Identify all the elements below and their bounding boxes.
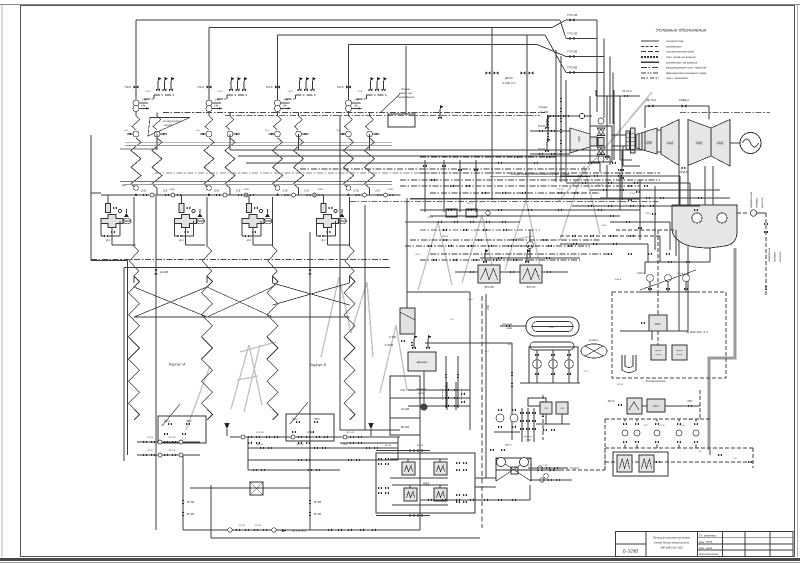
svg-text:СМ: СМ <box>544 408 548 410</box>
group riser below valve <box>277 92 279 99</box>
svg-text:ВГ-5В: ВГ-5В <box>187 501 194 504</box>
svg-text:ПЗ-6: ПЗ-6 <box>146 91 152 93</box>
heater zigzag pair group 1 <box>135 112 137 117</box>
heater pumps box <box>529 347 578 383</box>
БОУ dashed enclosure <box>612 292 726 378</box>
drain pumps pair <box>496 414 504 422</box>
drop to lower risers <box>111 228 113 246</box>
small flags above tank <box>413 339 415 348</box>
shell outline lines across heater groups <box>125 142 392 144</box>
svg-text:ФП-1В: ФП-1В <box>538 125 546 128</box>
link from feed pumps to drain row <box>560 469 605 471</box>
drain collector column <box>390 376 420 435</box>
svg-text:ВР1-2В: ВР1-2В <box>346 432 354 434</box>
LP cylinder 2 <box>711 120 730 167</box>
svg-text:(2+В: (2+В <box>353 191 359 193</box>
small cluster left of turbine <box>620 169 624 172</box>
svg-text:ЦВД: ЦВД <box>646 141 653 145</box>
middle-right horizontals below turbine <box>560 175 680 177</box>
svg-text:РЧ4В: РЧ4В <box>243 188 249 191</box>
legend row: пит. вода на впрыск <box>641 56 659 58</box>
svg-text:(2+В: (2+В <box>214 191 220 193</box>
svg-text:ЦНД: ЦНД <box>717 141 725 145</box>
svg-text:на конденс.: на конденс. <box>292 529 307 533</box>
svg-text:РЧ4В: РЧ4В <box>169 188 175 191</box>
steam line 1 diagonal to stop valve <box>560 20 566 39</box>
svg-text:Нормальный: Нормальный <box>749 191 753 208</box>
steam line 1 horizontal <box>136 19 560 21</box>
svg-text:охладит.: охладит. <box>589 339 600 342</box>
turbine drain collectors <box>620 330 688 332</box>
crossover pipes down <box>678 166 680 332</box>
svg-text:конд-та: конд-та <box>778 251 782 262</box>
drain collector band <box>163 112 545 114</box>
svg-text:конденсат: конденсат <box>666 44 682 48</box>
boiler waterwall zigzag 1 <box>129 276 140 420</box>
distribution maze horizontals <box>420 209 640 211</box>
legend row: острый пар <box>641 40 659 42</box>
svg-text:КЭН-Б: КЭН-Б <box>615 279 622 281</box>
LP exhaust to condenser <box>704 166 706 205</box>
trio header line <box>296 94 317 96</box>
svg-text:ВГ-6В: ВГ-6В <box>187 513 194 516</box>
left boundary pipes <box>90 135 92 261</box>
svg-text:насос: насос <box>677 354 684 356</box>
generator <box>740 133 761 154</box>
valve И1-6 <box>207 85 212 88</box>
РОУ station boxes <box>446 209 457 217</box>
svg-text:конд-та: конд-та <box>760 197 764 208</box>
bottom manifold lines <box>230 436 400 438</box>
drop to lower risers <box>185 228 187 246</box>
group 4 header line with fittings <box>314 194 401 196</box>
svg-text:ВТЗ-В: ВТЗ-В <box>257 444 264 446</box>
svg-text:добавок: добавок <box>755 197 759 208</box>
svg-text:схема блока мощностью: схема блока мощностью <box>654 541 690 545</box>
svg-text:РКНД-Б: РКНД-Б <box>679 171 688 174</box>
small instrument above unit 1 <box>113 207 117 210</box>
heater group 3 main downcomer <box>277 35 279 115</box>
steam line 2 diagonal to stop valve <box>552 20 566 28</box>
hotwell line <box>709 248 711 262</box>
svg-text:дренаж расточенного пара: дренаж расточенного пара <box>666 71 706 75</box>
svg-text:КВ-10: КВ-10 <box>608 401 615 403</box>
svg-text:ПВ-2: ПВ-2 <box>186 420 192 423</box>
expander tank <box>400 308 415 334</box>
svg-text:ГПЗ-2В: ГПЗ-2В <box>567 32 577 36</box>
lower drum <box>530 342 574 350</box>
wave tank <box>627 398 642 414</box>
svg-text:СМ-2: СМ-2 <box>653 404 660 408</box>
svg-text:СП-1В: СП-1В <box>557 189 564 191</box>
svg-text:ВД-2В: ВД-2В <box>442 236 449 238</box>
condensate pumps КЭН <box>647 275 654 282</box>
svg-text:14в: 14в <box>142 98 147 102</box>
svg-text:Гл. инженер: Гл. инженер <box>699 534 716 538</box>
svg-text:ГПЗ-3В: ГПЗ-3В <box>567 50 577 54</box>
svg-text:ПМУ: ПМУ <box>687 401 693 403</box>
svg-text:ЭТ1-2В: ЭТ1-2В <box>168 437 176 439</box>
svg-text:Общестанционная магистраль 5 а: Общестанционная магистраль 5 атм <box>511 172 570 176</box>
steam line 4 horizontal <box>349 44 538 46</box>
svg-text:Д-1: Д-1 <box>246 238 252 242</box>
condenser <box>672 205 737 248</box>
svg-text:П-302-2: П-302-2 <box>570 467 580 470</box>
svg-text:ПЗ-6: ПЗ-6 <box>218 91 224 93</box>
svg-text:Р-2В: Р-2В <box>528 465 533 467</box>
small instrument above unit 4 <box>329 207 333 210</box>
safety valve trio <box>299 81 301 90</box>
svg-text:ВТО-5В: ВТО-5В <box>485 286 494 289</box>
boiler waterwall zigzag 4 <box>344 276 355 420</box>
long dashed main <box>481 296 483 528</box>
sheet top edge <box>0 4 800 6</box>
svg-text:14в: 14в <box>141 104 146 108</box>
safety valve trio <box>370 81 372 90</box>
svg-text:ПВ-1: ПВ-1 <box>292 418 298 421</box>
valve Д-3АВ on center line <box>155 196 157 530</box>
title block <box>616 532 794 557</box>
svg-text:Условные обозначения: Условные обозначения <box>656 28 707 33</box>
svg-text:ЦНД: ЦНД <box>696 141 704 145</box>
svg-text:рециркуляция пит. насосов: рециркуляция пит. насосов <box>665 66 707 70</box>
trio header line <box>367 94 388 96</box>
svg-text:ЭТ1-В: ЭТ1-В <box>147 437 154 439</box>
stop valve ГПЗ-3В <box>569 55 574 59</box>
ДРОУ reduction drops <box>491 28 493 201</box>
drain pump <box>420 403 427 410</box>
safety valve trio <box>157 81 159 90</box>
svg-text:ПЭ-6: ПЭ-6 <box>337 85 344 89</box>
svg-text:ЛК-70-А: ЛК-70-А <box>645 98 657 102</box>
svg-text:ВР1-1В: ВР1-1В <box>296 444 304 446</box>
steam line 4 diagonal to stop valve <box>537 45 566 57</box>
feed pipes cap <box>596 95 614 97</box>
svg-text:ЦВД: ЦВД <box>577 136 581 142</box>
heater group 4 upper circle <box>346 106 352 112</box>
drain cooler unit 4 (cross shape) <box>317 215 339 228</box>
heater group 1 upper circle <box>133 106 139 112</box>
svg-text:РЧ4В: РЧ4В <box>387 188 393 191</box>
svg-text:ПВУ: ПВУ <box>688 419 693 421</box>
БОУ unit <box>649 315 667 331</box>
callout flag "от магистрали насоса" <box>148 118 190 137</box>
svg-text:ПЭ-6: ПЭ-6 <box>125 85 132 89</box>
svg-text:ДРОУ: ДРОУ <box>504 76 514 80</box>
middle verticals <box>424 160 426 212</box>
svg-text:проч. перекрёв.: проч. перекрёв. <box>666 76 689 80</box>
svg-text:ПЗ-6: ПЗ-6 <box>288 91 294 93</box>
БРОУ valves bundle extra <box>547 118 550 122</box>
svg-text:ЛЖ-1: ЛЖ-1 <box>414 254 421 256</box>
svg-text:ПВ-2: ПВ-2 <box>314 418 320 421</box>
svg-text:(2-В: (2-В <box>236 191 241 193</box>
svg-text:ЦНД: ЦНД <box>667 141 675 145</box>
svg-text:ХР-20Б: ХР-20Б <box>400 408 410 411</box>
sheet left edge <box>1 5 3 557</box>
svg-text:конденсат на впрыск: конденсат на впрыск <box>666 60 698 64</box>
stop valve ГПЗ-1В <box>569 18 574 22</box>
svg-text:Д-3АВ: Д-3АВ <box>159 270 168 274</box>
middle dash-dot mains <box>420 156 556 158</box>
makeup valves down <box>765 213 767 295</box>
drops from headers to heater pairs <box>156 134 158 150</box>
svg-text:СМ: СМ <box>560 408 564 410</box>
group riser below valve <box>348 92 350 99</box>
trio header line <box>154 94 175 96</box>
group 2 header line with fittings <box>174 194 261 196</box>
svg-text:14в: 14в <box>354 104 359 108</box>
svg-text:вода: вода <box>507 327 513 330</box>
legend row: конденсат <box>641 45 659 47</box>
svg-text:КС-1: КС-1 <box>584 371 590 373</box>
svg-text:РК-70-А: РК-70-А <box>622 90 632 93</box>
LP cylinder 1 <box>688 120 711 166</box>
heater zigzag pair group 2 <box>208 112 210 117</box>
center risers <box>339 115 341 430</box>
heater group 3 upper circle <box>275 106 281 112</box>
dashed link БОУ to bottom <box>709 450 711 455</box>
left pipe stubs <box>91 192 101 194</box>
drain line with X-station <box>190 487 310 489</box>
svg-text:Дренажн.: Дренажн. <box>415 388 427 391</box>
boiler waterwall zigzag 3 <box>267 276 278 420</box>
drop to lower risers <box>252 228 254 246</box>
svg-text:14в: 14в <box>283 104 288 108</box>
drain verticals with labels <box>445 356 447 408</box>
pump circle <box>275 100 281 106</box>
svg-text:ВТ-В: ВТ-В <box>148 450 153 452</box>
svg-text:ВГ-5В: ВГ-5В <box>314 501 321 504</box>
svg-text:питательная вода: питательная вода <box>666 50 694 54</box>
ПСГ horizontal heater vessel <box>526 317 579 336</box>
svg-text:ПЭН: ПЭН <box>519 245 525 248</box>
svg-text:ВГ-2В: ВГ-2В <box>385 445 392 447</box>
svg-text:8 Бл. сл.: 8 Бл. сл. <box>400 389 410 392</box>
heater group 1 main downcomer <box>135 20 137 115</box>
expander riser connections <box>407 291 470 293</box>
small instrument above unit 3 <box>254 207 258 210</box>
boiler outlet cone <box>570 128 590 153</box>
svg-text:Нач. ПТО: Нач. ПТО <box>699 540 713 544</box>
svg-text:(2+В: (2+В <box>141 191 147 193</box>
svg-text:КВ-4: КВ-4 <box>602 224 607 227</box>
risers between sections <box>130 246 139 276</box>
svg-text:Д-1: Д-1 <box>179 238 185 242</box>
svg-text:СЛ-4: СЛ-4 <box>630 192 636 195</box>
svg-text:Р-303В: Р-303В <box>385 344 394 347</box>
shaft to generator <box>730 142 740 144</box>
svg-text:(2-В: (2-В <box>163 191 168 193</box>
pump circle <box>133 100 139 106</box>
turbine top bus <box>645 105 709 107</box>
admission lines into cone <box>530 130 570 132</box>
svg-text:14в: 14в <box>355 98 360 102</box>
svg-text:14в: 14в <box>284 98 289 102</box>
svg-text:Б-329В: Б-329В <box>623 548 638 553</box>
svg-text:КЭН-А: КЭН-А <box>638 272 646 275</box>
svg-text:пит. вода на впрыск: пит. вода на впрыск <box>666 55 696 59</box>
net water heaters ВТО <box>478 265 500 283</box>
dashed verticals bottom right <box>699 390 701 419</box>
svg-text:добавок: добавок <box>773 251 777 262</box>
valve И2-6 <box>275 85 280 88</box>
normal makeup line <box>737 212 749 214</box>
svg-text:Корпус А: Корпус А <box>169 362 186 367</box>
funnel symbols <box>224 423 230 429</box>
heater group 2 main downcomer <box>208 28 210 116</box>
svg-text:(2+В: (2+В <box>282 191 288 193</box>
svg-text:на БЗК №3, 4, 5: на БЗК №3, 4, 5 <box>686 330 708 334</box>
svg-text:ПЗ-6: ПЗ-6 <box>358 91 364 93</box>
crossover X between columns 2-3 <box>207 287 273 317</box>
svg-text:переб.: переб. <box>676 350 683 352</box>
ПВД side valve clusters <box>378 457 382 460</box>
svg-text:ВТЗ-В: ВТЗ-В <box>307 432 314 434</box>
steam line 2 horizontal <box>209 27 552 29</box>
drain tank Дренаж <box>408 352 436 371</box>
stop valve ГПЗ-2В <box>569 37 574 41</box>
drain cooler unit 2 (cross shape) <box>175 215 197 228</box>
ПВД heater boxes <box>402 462 415 475</box>
drain tank small <box>622 355 636 373</box>
svg-text:РО-6Т: РО-6Т <box>239 525 246 527</box>
group riser below valve <box>135 92 137 99</box>
watermark diagonal strokes <box>231 345 249 409</box>
group 3 header line with fittings <box>243 194 330 196</box>
svg-text:ПР-4: ПР-4 <box>468 298 474 301</box>
transfer pumps <box>651 345 666 360</box>
crossover header lines <box>134 316 230 318</box>
heater zigzag pair group 3 <box>277 112 279 117</box>
stop/control valve column <box>590 126 612 162</box>
svg-text:0-160 т/ч: 0-160 т/ч <box>502 81 516 85</box>
svg-text:РКВД-А: РКВД-А <box>679 98 689 102</box>
extraction headers from turbine to heaters <box>622 149 645 151</box>
vertical condensate main <box>469 317 471 430</box>
svg-text:ВТО-5А: ВТО-5А <box>527 286 536 289</box>
ПВД enclosure <box>376 453 475 513</box>
riser top headers <box>112 244 136 246</box>
svg-text:переб.: переб. <box>655 350 662 352</box>
legend row: проч. перекрёв. <box>641 77 659 79</box>
svg-text:РО-8Л: РО-8Л <box>255 525 262 527</box>
svg-text:Д-1: Д-1 <box>105 238 111 242</box>
feedwater pumps area ПЭН <box>527 242 534 249</box>
legend row: рециркуляция пит. насосов <box>641 67 659 69</box>
svg-text:300 мВт Бл.№3: 300 мВт Бл.№3 <box>660 546 683 550</box>
group riser below valve <box>208 92 210 99</box>
svg-text:Нач. цеха: Нач. цеха <box>699 546 713 550</box>
valve stacks <box>521 408 523 442</box>
steam line 3 horizontal <box>278 34 546 36</box>
svg-text:РОУ-1: РОУ-1 <box>427 217 434 219</box>
svg-text:Р-30Б: Р-30Б <box>389 336 396 339</box>
legend row: дренаж расточенного пара <box>641 72 659 74</box>
inlet pipes to HP bar <box>612 134 631 136</box>
svg-text:острый пар: острый пар <box>666 39 684 43</box>
svg-text:ПН-Т: ПН-Т <box>505 444 511 447</box>
trio header line <box>227 94 248 96</box>
svg-text:ГПЗ-1В: ГПЗ-1В <box>567 13 577 17</box>
svg-text:Пар: Пар <box>122 184 127 187</box>
safety valve trio <box>230 81 232 90</box>
HP cylinder ЦВД <box>636 128 657 154</box>
sheet bottom edge <box>0 558 800 561</box>
heater zigzag pair group 4 <box>348 112 350 117</box>
lower drain band <box>410 198 640 200</box>
valve И3-6 <box>346 85 351 88</box>
heater group 4 main downcomer <box>348 45 350 116</box>
svg-text:от магистрали: от магистрали <box>163 120 182 123</box>
maze valves <box>448 209 452 212</box>
IP cylinder ЦСД <box>661 120 679 166</box>
svg-text:насос: насос <box>418 392 425 395</box>
svg-text:ПЭ-6: ПЭ-6 <box>266 85 273 89</box>
svg-text:УЗФ: УЗФ <box>487 305 490 310</box>
blowdown boxes with funnels <box>158 416 206 443</box>
svg-text:Корпус Б: Корпус Б <box>310 362 327 367</box>
svg-text:ГПЗ-4В: ГПЗ-4В <box>567 66 577 70</box>
group 1 header line with fittings <box>101 194 188 196</box>
drain cooler oval <box>581 344 607 358</box>
downcomers right <box>596 20 598 112</box>
svg-text:Исполнитель: Исполнитель <box>699 552 719 556</box>
boiler waterwall zigzag 2 <box>202 276 213 420</box>
РОУ callout <box>381 94 400 112</box>
svg-text:Аварийный: Аварийный <box>767 247 771 263</box>
column drops from headers to risers <box>133 197 135 246</box>
bottom-left valve clusters <box>143 441 147 444</box>
svg-text:ПВ-2: ПВ-2 <box>343 444 349 446</box>
svg-text:насоса: насоса <box>164 124 173 127</box>
pump circle <box>346 100 352 106</box>
svg-text:ЛВ-2: ЛВ-2 <box>645 213 652 215</box>
condensate return manifold rows <box>408 389 470 391</box>
svg-text:ВР-20Б: ВР-20Б <box>401 426 410 429</box>
feed pump crossover <box>496 458 531 481</box>
svg-text:Дренаж: Дренаж <box>416 360 429 364</box>
svg-text:14в: 14в <box>215 98 220 102</box>
small instrument above unit 2 <box>187 207 191 210</box>
crossover X between columns 3-4 <box>273 283 350 305</box>
БРОУ spray row <box>548 115 592 117</box>
svg-text:КЭН-В: КЭН-В <box>677 273 684 275</box>
svg-text:ВТЗ-2В: ВТЗ-2В <box>256 432 264 434</box>
svg-text:КР-В: КР-В <box>660 425 665 427</box>
heater group 2 upper circle <box>206 106 212 112</box>
middle valve speckle <box>423 165 427 168</box>
legend row: конденсат на впрыск <box>641 61 659 63</box>
bottom mid extra valves <box>248 442 252 445</box>
drain cooler unit 3 (cross shape) <box>242 215 264 228</box>
svg-text:Р-3В: Р-3В <box>543 465 548 467</box>
БРОУ vertical bundle <box>555 50 557 182</box>
svg-text:Дренаж: Дренаж <box>523 436 532 438</box>
ПВД internal piping <box>390 458 448 460</box>
bottom drain header to condenser <box>183 529 420 531</box>
svg-text:СП-1Ж: СП-1Ж <box>596 185 604 187</box>
svg-text:Принципиальная пусковая: Принципиальная пусковая <box>653 536 690 540</box>
crossover X between columns 1-2 <box>134 287 207 317</box>
svg-text:ПВД: ПВД <box>423 482 430 486</box>
drop to lower risers <box>327 228 329 246</box>
svg-text:ФП-2В: ФП-2В <box>538 148 546 151</box>
condensate transfer line <box>425 342 512 344</box>
steam line 3 diagonal to stop valve <box>545 35 566 73</box>
mixers box <box>613 452 668 476</box>
svg-text:с ПВД: с ПВД <box>525 440 532 442</box>
